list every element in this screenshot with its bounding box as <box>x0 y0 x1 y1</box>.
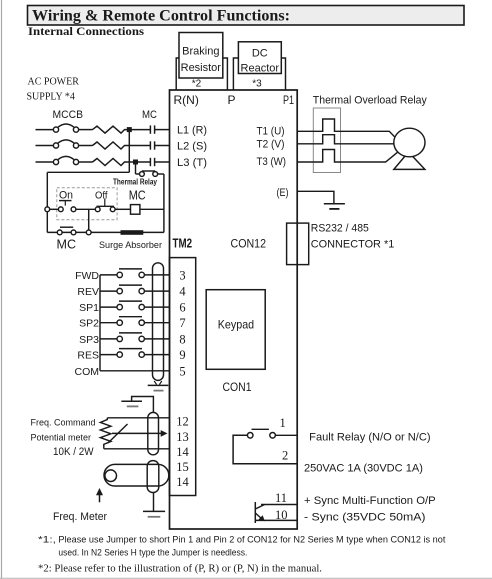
svg-text:SP1: SP1 <box>79 302 99 314</box>
freq meter pointer arrow <box>96 488 103 502</box>
digital input terminal block capsule <box>153 263 164 381</box>
sync output terminal 11 <box>261 491 297 505</box>
RES switch and wire to terminal 9 <box>77 348 185 362</box>
svg-text:CON1: CON1 <box>223 380 252 394</box>
label Surge Absorber <box>99 240 162 251</box>
svg-text:SUPPLY *4: SUPPLY *4 <box>27 92 75 103</box>
label MCCB <box>53 109 84 121</box>
dashed enclosure On/Off station <box>57 188 117 220</box>
thermal overload relay enclosure <box>313 108 340 173</box>
svg-text:*2: *2 <box>192 79 202 90</box>
svg-text:L2 (S): L2 (S) <box>177 141 207 153</box>
svg-text:CONNECTOR *1: CONNECTOR *1 <box>311 239 395 251</box>
motor wire T3 with heater element <box>297 150 397 163</box>
svg-text:13: 13 <box>176 430 189 444</box>
label CON1 <box>223 380 252 394</box>
svg-text:Thermal Overload Relay: Thermal Overload Relay <box>313 95 427 107</box>
COM wire to terminal 5 <box>75 364 186 378</box>
svg-text:*2: Please refer to the illust: *2: Please refer to the illustration of … <box>38 564 322 575</box>
DC reactor socket pins <box>233 58 285 90</box>
svg-text:T2 (V): T2 (V) <box>257 139 285 151</box>
label + Sync Multi-Function O/P <box>304 495 436 507</box>
svg-text:2: 2 <box>282 449 288 463</box>
svg-text:Thermal Relay: Thermal Relay <box>113 178 157 187</box>
svg-text:15: 15 <box>176 460 189 474</box>
label 10K / 2W <box>53 446 94 458</box>
label Freq. Command <box>31 418 96 428</box>
page edge artifact left <box>1 0 3 579</box>
svg-text:*3: *3 <box>252 79 262 90</box>
svg-text:P: P <box>228 93 236 107</box>
terminal circle on left rail <box>45 207 50 212</box>
note *1 red line 1 <box>58 535 446 545</box>
wire from L1 junction down to control circuit <box>47 130 129 173</box>
Off pushbutton (NC) <box>95 198 130 211</box>
label (E) <box>277 187 289 199</box>
fault relay terminal 2 <box>282 449 288 463</box>
svg-text:Please use Jumper to short Pin: Please use Jumper to short Pin 1 and Pin… <box>58 535 446 545</box>
svg-text:Potential meter: Potential meter <box>31 433 92 443</box>
potentiometer wiper arrow to terminal 13 <box>108 424 189 444</box>
On pushbutton (NO) <box>50 201 96 212</box>
motor wire T2 with heater element <box>297 135 394 144</box>
svg-text:AC POWER: AC POWER <box>28 77 80 88</box>
svg-text:Braking: Braking <box>182 46 219 58</box>
svg-text:L3 (T): L3 (T) <box>177 157 207 169</box>
label RS232 / 485 CONNECTOR *1 <box>311 222 395 250</box>
fault relay terminal 1 <box>280 416 286 430</box>
keypad box <box>206 290 265 370</box>
terminal labels R(N) P P1 <box>174 93 295 107</box>
RS232/485 connector box <box>287 223 309 265</box>
REV switch and wire to terminal 4 <box>77 285 186 299</box>
junction on L1 feeding control circuit <box>127 127 132 132</box>
motor mount triangle <box>394 152 425 169</box>
svg-text:Freq. Meter: Freq. Meter <box>53 511 107 523</box>
svg-text:*1:,: *1:, <box>38 535 56 546</box>
digital input common bus <box>99 275 101 371</box>
svg-text:T1 (U): T1 (U) <box>257 126 285 138</box>
label Freq. Meter <box>53 511 107 523</box>
svg-text:REV: REV <box>77 286 99 298</box>
label MC (coil) <box>129 189 146 203</box>
svg-text:P1: P1 <box>283 93 294 107</box>
fault relay contact <box>233 429 297 464</box>
svg-text:TM2: TM2 <box>173 236 193 251</box>
thermal relay NC contact <box>136 162 164 176</box>
svg-text:10K / 2W: 10K / 2W <box>53 446 94 458</box>
MC holding contact (NO) on bottom wire <box>57 227 76 235</box>
svg-text:Reactor: Reactor <box>241 63 280 75</box>
label 250VAC rating <box>304 463 423 475</box>
label On <box>59 190 73 202</box>
svg-text:9: 9 <box>179 348 185 362</box>
svg-text:used. In N2 Series H type the: used. In N2 Series H type the Jumper is … <box>58 547 247 557</box>
svg-text:Resistor: Resistor <box>181 62 222 74</box>
svg-text:Fault Relay (N/O or N/C): Fault Relay (N/O or N/C) <box>309 431 430 443</box>
control circuit right rail <box>163 174 165 232</box>
shield drain wire and chassis ground for analog input <box>121 397 153 413</box>
svg-text:Wiring & Remote Control Functi: Wiring & Remote Control Functions: <box>32 8 290 25</box>
svg-text:Keypad: Keypad <box>218 318 254 332</box>
label Fault Relay <box>309 431 430 443</box>
svg-text:DC: DC <box>252 48 268 60</box>
svg-text:T3 (W): T3 (W) <box>257 156 287 168</box>
control circuit bottom wire <box>47 231 164 233</box>
SP2 switch and wire to terminal 7 <box>79 316 185 330</box>
ground below analog capsule <box>143 493 165 517</box>
svg-text:CON12: CON12 <box>231 237 267 251</box>
label Potential meter <box>31 433 92 443</box>
note *1 red line 2 <box>58 547 247 557</box>
label MC (holding contact) <box>57 238 77 252</box>
svg-text:MC: MC <box>129 189 146 203</box>
svg-text:SP3: SP3 <box>79 334 99 346</box>
wire to terminal 12 <box>107 414 188 428</box>
label MC (contactor) <box>142 109 157 121</box>
page edge artifact bottom <box>0 577 492 579</box>
svg-text:4: 4 <box>179 285 186 299</box>
svg-text:COM: COM <box>75 366 100 378</box>
FWD switch and wire to terminal 3 <box>75 268 186 282</box>
svg-text:Surge Absorber: Surge Absorber <box>99 240 162 251</box>
svg-text:5: 5 <box>179 364 185 378</box>
svg-text:MC: MC <box>142 109 157 121</box>
junction circle on bottom wire <box>86 230 91 235</box>
label CON12 <box>231 237 267 251</box>
svg-text:14: 14 <box>176 445 189 459</box>
branch from On/Off junction down to holding contact <box>88 209 90 230</box>
analog terminal block capsule (12 13 14) <box>148 412 159 454</box>
svg-text:FWD: FWD <box>75 270 99 282</box>
subtitle Internal Connections <box>28 24 144 38</box>
output terminal labels T1 T2 T3 <box>257 126 287 169</box>
svg-text:SP2: SP2 <box>79 318 99 330</box>
svg-text:11: 11 <box>275 491 287 505</box>
analog terminal block capsule (15 14) <box>147 461 159 493</box>
DC reactor box *3 <box>238 42 281 90</box>
label TM2 <box>173 236 193 251</box>
ground below digital terminal capsule <box>148 381 169 391</box>
svg-text:12: 12 <box>176 414 189 428</box>
motor wire T1 with heater element <box>297 119 396 138</box>
svg-text:Internal Connections: Internal Connections <box>28 24 144 38</box>
svg-text:14: 14 <box>176 475 189 489</box>
earth wire and ground symbol <box>297 191 345 209</box>
svg-text:On: On <box>59 190 73 202</box>
svg-text:R(N): R(N) <box>174 93 199 107</box>
input terminal labels L1 L2 L3 <box>177 125 207 170</box>
svg-text:Off: Off <box>95 190 108 202</box>
label - Sync (35VDC 50mA) <box>304 511 426 523</box>
note *1 black prefix <box>38 535 56 546</box>
svg-text:MCCB: MCCB <box>53 109 84 121</box>
svg-text:8: 8 <box>179 332 185 346</box>
potentiometer zigzag <box>100 418 111 449</box>
phase L2 wire with MCCB breaker, fuse zigzag and MC contact <box>36 140 170 150</box>
braking resistor socket pins <box>176 58 227 90</box>
svg-text:3: 3 <box>179 268 185 282</box>
svg-text:1: 1 <box>280 416 286 430</box>
surge absorber block <box>121 230 144 235</box>
label Off <box>95 190 108 202</box>
control circuit left rail <box>46 172 48 232</box>
svg-text:RES: RES <box>77 350 99 362</box>
svg-text:L1 (R): L1 (R) <box>177 125 207 137</box>
shielded cable pill to terminals 15 and 14 <box>104 460 190 489</box>
title bar <box>28 6 465 26</box>
note *2 <box>38 564 322 575</box>
svg-text:RS232 / 485: RS232 / 485 <box>311 222 369 234</box>
TM2 terminal strip (numbers column) <box>170 258 196 496</box>
svg-text:(E): (E) <box>277 187 289 199</box>
label Thermal Relay (small) <box>113 178 157 187</box>
svg-text:Freq. Command: Freq. Command <box>31 418 96 428</box>
inverter main box <box>170 90 298 529</box>
phase L3 wire with MCCB breaker, fuse zigzag and MC contact <box>36 156 170 166</box>
wire to terminal 14 <box>104 445 190 459</box>
SP3 switch and wire to terminal 8 <box>79 332 185 346</box>
svg-text:MC: MC <box>57 238 77 252</box>
svg-text:+ Sync Multi-Function O/P: + Sync Multi-Function O/P <box>304 495 436 507</box>
junction on L3 feeding thermal relay contact <box>133 160 138 165</box>
braking resistor box *2 <box>179 33 223 90</box>
motor body <box>394 128 425 157</box>
label AC POWER SUPPLY *4 <box>27 77 80 103</box>
svg-text:6: 6 <box>179 301 185 315</box>
svg-text:7: 7 <box>179 316 185 330</box>
svg-text:250VAC 1A (30VDC 1A): 250VAC 1A (30VDC 1A) <box>304 463 423 475</box>
label Thermal Overload Relay <box>313 95 427 107</box>
SP1 switch and wire to terminal 6 <box>79 301 185 315</box>
freq meter connector circle <box>105 470 117 482</box>
MC coil <box>131 205 164 215</box>
phase L1 wire with MCCB breaker, fuse zigzag and MC contact <box>36 124 170 134</box>
sync output terminal 10 <box>255 508 297 522</box>
svg-text:- Sync (35VDC 50mA): - Sync (35VDC 50mA) <box>304 511 426 523</box>
open collector output symbol <box>255 502 264 523</box>
